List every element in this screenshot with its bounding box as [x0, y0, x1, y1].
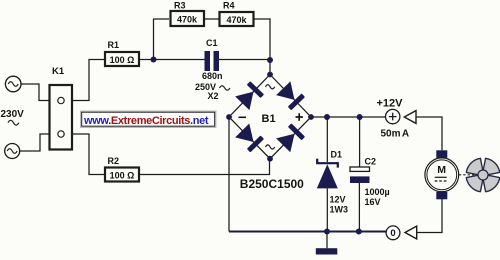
wire D1 branch bottom	[326, 188, 328, 231]
wire C2 branch bottom	[358, 183, 360, 232]
node junction C1/R4/bridge	[267, 57, 273, 63]
svg-text:R3: R3	[174, 1, 186, 11]
resistor R3	[171, 11, 205, 26]
node 0V rail C2 junction	[356, 229, 362, 235]
node bridge top corner	[267, 72, 273, 78]
svg-text:R2: R2	[108, 156, 120, 166]
svg-text:1000µ: 1000µ	[365, 187, 390, 197]
wire K1 to R1	[73, 60, 104, 101]
wire K1 to R2	[73, 134, 104, 175]
label 250V ~	[195, 82, 230, 92]
wire R3 to R4	[203, 18, 219, 20]
node bridge right corner	[308, 114, 314, 120]
svg-text:R4: R4	[223, 1, 235, 11]
svg-text:K1: K1	[52, 66, 65, 77]
svg-text:680n: 680n	[202, 71, 223, 81]
node C2 top junction	[357, 114, 363, 120]
svg-text:R1: R1	[108, 40, 120, 50]
svg-text:www.ExtremeCircuits.net: www.ExtremeCircuits.net	[83, 115, 209, 127]
wire bridge right corner to +12V	[311, 116, 386, 118]
label AC tilde bottom	[266, 145, 275, 149]
bridge diode top-left	[235, 81, 264, 110]
resistor R2	[105, 168, 139, 182]
svg-text:B1: B1	[262, 113, 276, 125]
resistor R4	[220, 12, 254, 26]
node D1 top junction	[324, 114, 330, 120]
svg-text:100 Ω: 100 Ω	[110, 55, 135, 65]
terminal +12V	[386, 109, 400, 123]
capacitor C2	[350, 167, 370, 183]
connector K1	[50, 85, 73, 150]
svg-text:B250C1500: B250C1500	[240, 177, 304, 191]
node bridge left corner	[226, 114, 232, 120]
wire junction up to R3	[154, 19, 170, 60]
wire AC2 to K1	[20, 134, 49, 151]
terminal 0V	[386, 226, 400, 240]
node junction after R1	[151, 57, 157, 63]
arrow into +12V terminal	[404, 111, 416, 124]
bridge rectifier B1 outline	[229, 75, 311, 159]
wire D1 branch top	[326, 117, 328, 162]
svg-text:0: 0	[390, 228, 395, 239]
dashed shaft motor to fan	[459, 174, 478, 176]
wire R1 to C1	[139, 59, 205, 61]
svg-text:12V: 12V	[330, 195, 346, 205]
resistor R1	[105, 52, 139, 66]
svg-text:16V: 16V	[365, 197, 381, 207]
svg-text:1W3: 1W3	[330, 204, 349, 214]
wire C1 to bridge node	[219, 59, 270, 61]
label minus	[239, 116, 247, 118]
label plus	[296, 113, 303, 120]
bridge diode bottom-right	[276, 123, 305, 152]
ground	[316, 232, 338, 255]
svg-text:C2: C2	[365, 157, 377, 167]
wire R2 to bridge bottom	[139, 159, 270, 175]
AC source bottom (230V)	[5, 144, 20, 159]
svg-text:M: M	[437, 164, 446, 176]
label 230V	[1, 109, 25, 125]
AC source top (230V)	[5, 76, 21, 92]
label AC tilde top	[266, 85, 275, 89]
motor M1	[425, 150, 459, 199]
svg-text:X2: X2	[208, 91, 219, 101]
svg-text:50mA: 50mA	[381, 129, 410, 140]
wire motor to 0V terminal	[417, 199, 442, 233]
svg-text:470k: 470k	[177, 15, 198, 25]
svg-text:470k: 470k	[226, 15, 247, 25]
node bridge bottom corner	[267, 156, 273, 162]
svg-text:100 Ω: 100 Ω	[110, 170, 135, 180]
node 0V rail D1 junction	[324, 229, 330, 235]
wire +12V to motor	[416, 117, 442, 150]
wire C2 branch top	[359, 117, 361, 167]
bridge diode bottom-left	[235, 123, 264, 152]
wire bridge left corner down to 0V rail	[228, 117, 230, 232]
fan	[466, 158, 499, 191]
watermark www.ExtremeCircuits.net	[81, 111, 217, 128]
svg-text:C1: C1	[206, 38, 218, 48]
wire 0V bottom rail	[229, 231, 386, 233]
svg-text:230V: 230V	[1, 109, 25, 120]
wire AC1 to K1	[21, 84, 49, 101]
arrow into 0V terminal	[405, 226, 417, 239]
svg-text:D1: D1	[331, 150, 343, 160]
svg-text:+12V: +12V	[377, 98, 404, 110]
capacitor C1	[205, 51, 220, 71]
wire R4 down to bridge top	[253, 19, 270, 75]
bridge diode top-right	[276, 81, 305, 110]
zener diode D1	[317, 159, 338, 189]
